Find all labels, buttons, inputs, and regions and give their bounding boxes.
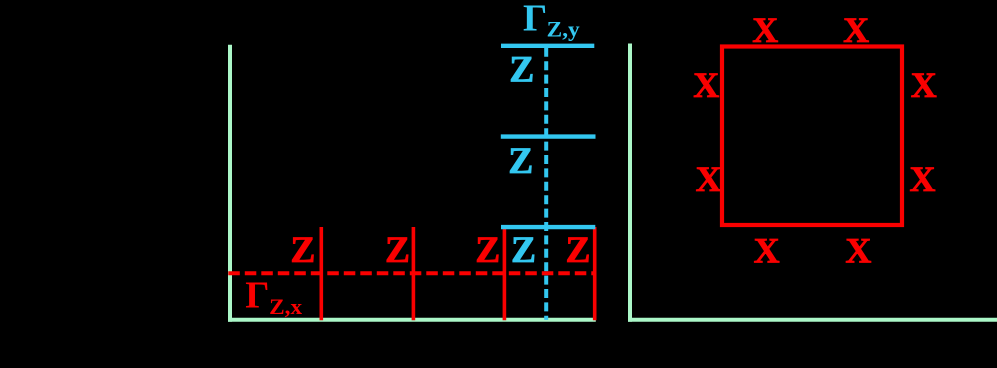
svg-text:Z: Z	[290, 230, 315, 271]
svg-text:X: X	[843, 10, 869, 50]
right diagram x-axis (pale green)	[628, 318, 997, 322]
svg-text:Z: Z	[385, 230, 410, 271]
svg-text:X: X	[754, 230, 780, 270]
red vertical Z-line 2	[412, 227, 416, 320]
red vertical Z-line 3	[503, 227, 507, 320]
cyan horizontal Z-segment 3 (bottom)	[501, 225, 595, 229]
svg-text:X: X	[911, 65, 937, 105]
left diagram y-axis (pale green)	[228, 45, 232, 322]
svg-text:X: X	[693, 65, 719, 105]
svg-text:X: X	[845, 230, 871, 270]
svg-text:Z: Z	[509, 49, 534, 90]
svg-text:Z: Z	[508, 141, 533, 182]
cyan horizontal Z-segment 2 (middle)	[501, 134, 596, 138]
svg-text:X: X	[752, 10, 778, 50]
red dashed horizontal line Gamma_Z,x	[228, 271, 596, 275]
left diagram x-axis (pale green)	[228, 318, 596, 322]
red vertical Z-line 1	[319, 227, 323, 320]
svg-text:Z,x: Z,x	[269, 294, 302, 319]
svg-text:Z: Z	[511, 230, 536, 271]
red vertical Z-line 4	[593, 227, 597, 320]
cyan horizontal Z-segment 1 (top)	[501, 44, 594, 48]
svg-text:Γ: Γ	[523, 0, 547, 40]
svg-text:Z: Z	[475, 230, 500, 271]
cyan dashed vertical line Gamma_Z,y	[544, 48, 548, 320]
svg-text:Z,y: Z,y	[547, 17, 580, 42]
red square (X-loop)	[722, 47, 902, 226]
label Gamma_Z,y (cyan)	[523, 0, 580, 42]
svg-text:Z: Z	[565, 230, 590, 271]
svg-text:Γ: Γ	[245, 274, 269, 316]
svg-text:X: X	[696, 159, 722, 199]
right diagram y-axis (pale green)	[628, 44, 632, 322]
label Gamma_Z,x (red)	[245, 274, 302, 319]
svg-text:X: X	[910, 159, 936, 199]
